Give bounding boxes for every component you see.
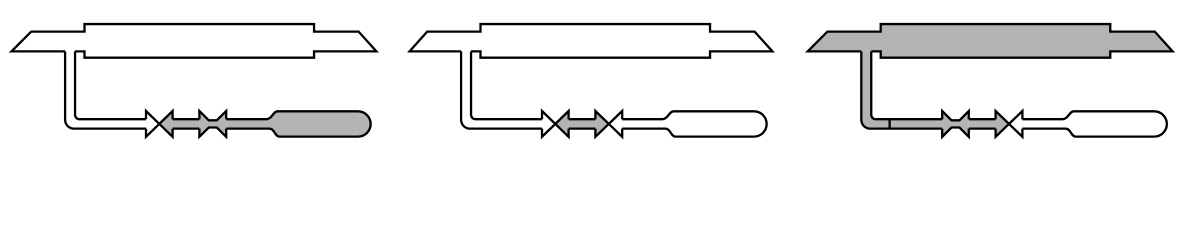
evaporator plate outline <box>12 24 377 58</box>
pipe outer wall <box>65 51 146 128</box>
reservoir capsule outline <box>1063 111 1167 136</box>
liquid fill: pipe segment between valves (gray) <box>173 119 200 129</box>
liquid fill: pipe segment valve V2 to reservoir (gray) <box>226 119 270 129</box>
valve V2 open bottom chevron <box>199 128 226 137</box>
liquid fill: valve V1 right arrow (gray) <box>159 111 172 137</box>
liquid fill: pipe segment between valves (gray) <box>969 119 996 129</box>
liquid fill: valve V2 left arrow (gray) <box>595 111 608 137</box>
valve V2 open top chevron <box>199 111 226 120</box>
evaporator plate outline <box>410 24 773 58</box>
liquid fill: pipe L-section interior (gray) <box>861 51 942 128</box>
pipe inner wall <box>471 51 542 119</box>
pipe between valves walls <box>569 119 596 128</box>
liquid fill: pipe segment between valves (gray) <box>569 119 596 129</box>
valve V2 right arrow outline (closed) <box>1009 111 1022 137</box>
evaporator plate outline <box>808 24 1173 58</box>
valve V2 left arrow outline (closed) <box>996 111 1009 137</box>
valve V1 left arrow outline (closed) <box>542 111 555 137</box>
liquid fill: open valve V1 (gray) <box>942 111 969 137</box>
liquid fill: evaporator plate interior (gray) <box>808 24 1173 58</box>
valve V2 left arrow outline (closed) <box>595 111 608 137</box>
valve V1 right arrow outline (closed) <box>555 111 568 137</box>
pipe valve V2 to reservoir walls <box>622 119 666 128</box>
reservoir capsule outline <box>662 111 766 136</box>
liquid fill: valve V2 left arrow (gray) <box>996 111 1009 137</box>
valve V1 left arrow outline (closed) <box>146 111 159 137</box>
pipe between valves walls <box>969 119 996 128</box>
pipe valve V2 to reservoir walls <box>226 119 270 128</box>
pipe outer wall <box>861 51 942 128</box>
liquid fill: reservoir capsule (gray) <box>266 111 370 136</box>
pipe seam tick after bend <box>888 119 890 128</box>
pipe inner wall <box>75 51 146 119</box>
reservoir capsule outline <box>266 111 370 136</box>
pipe between valves walls <box>173 119 200 128</box>
liquid fill: valve V1 right arrow (gray) <box>555 111 568 137</box>
valve V1 open top chevron <box>942 111 969 120</box>
valve V1 open bottom chevron <box>942 128 969 137</box>
pipe inner wall <box>871 51 942 119</box>
valve V1 right arrow outline (closed) <box>159 111 172 137</box>
valve V2 right arrow outline (closed) <box>609 111 622 137</box>
pipe valve V2 to reservoir walls <box>1022 119 1066 128</box>
liquid fill: open valve V2 (gray) <box>199 111 226 137</box>
pipe outer wall <box>461 51 542 128</box>
